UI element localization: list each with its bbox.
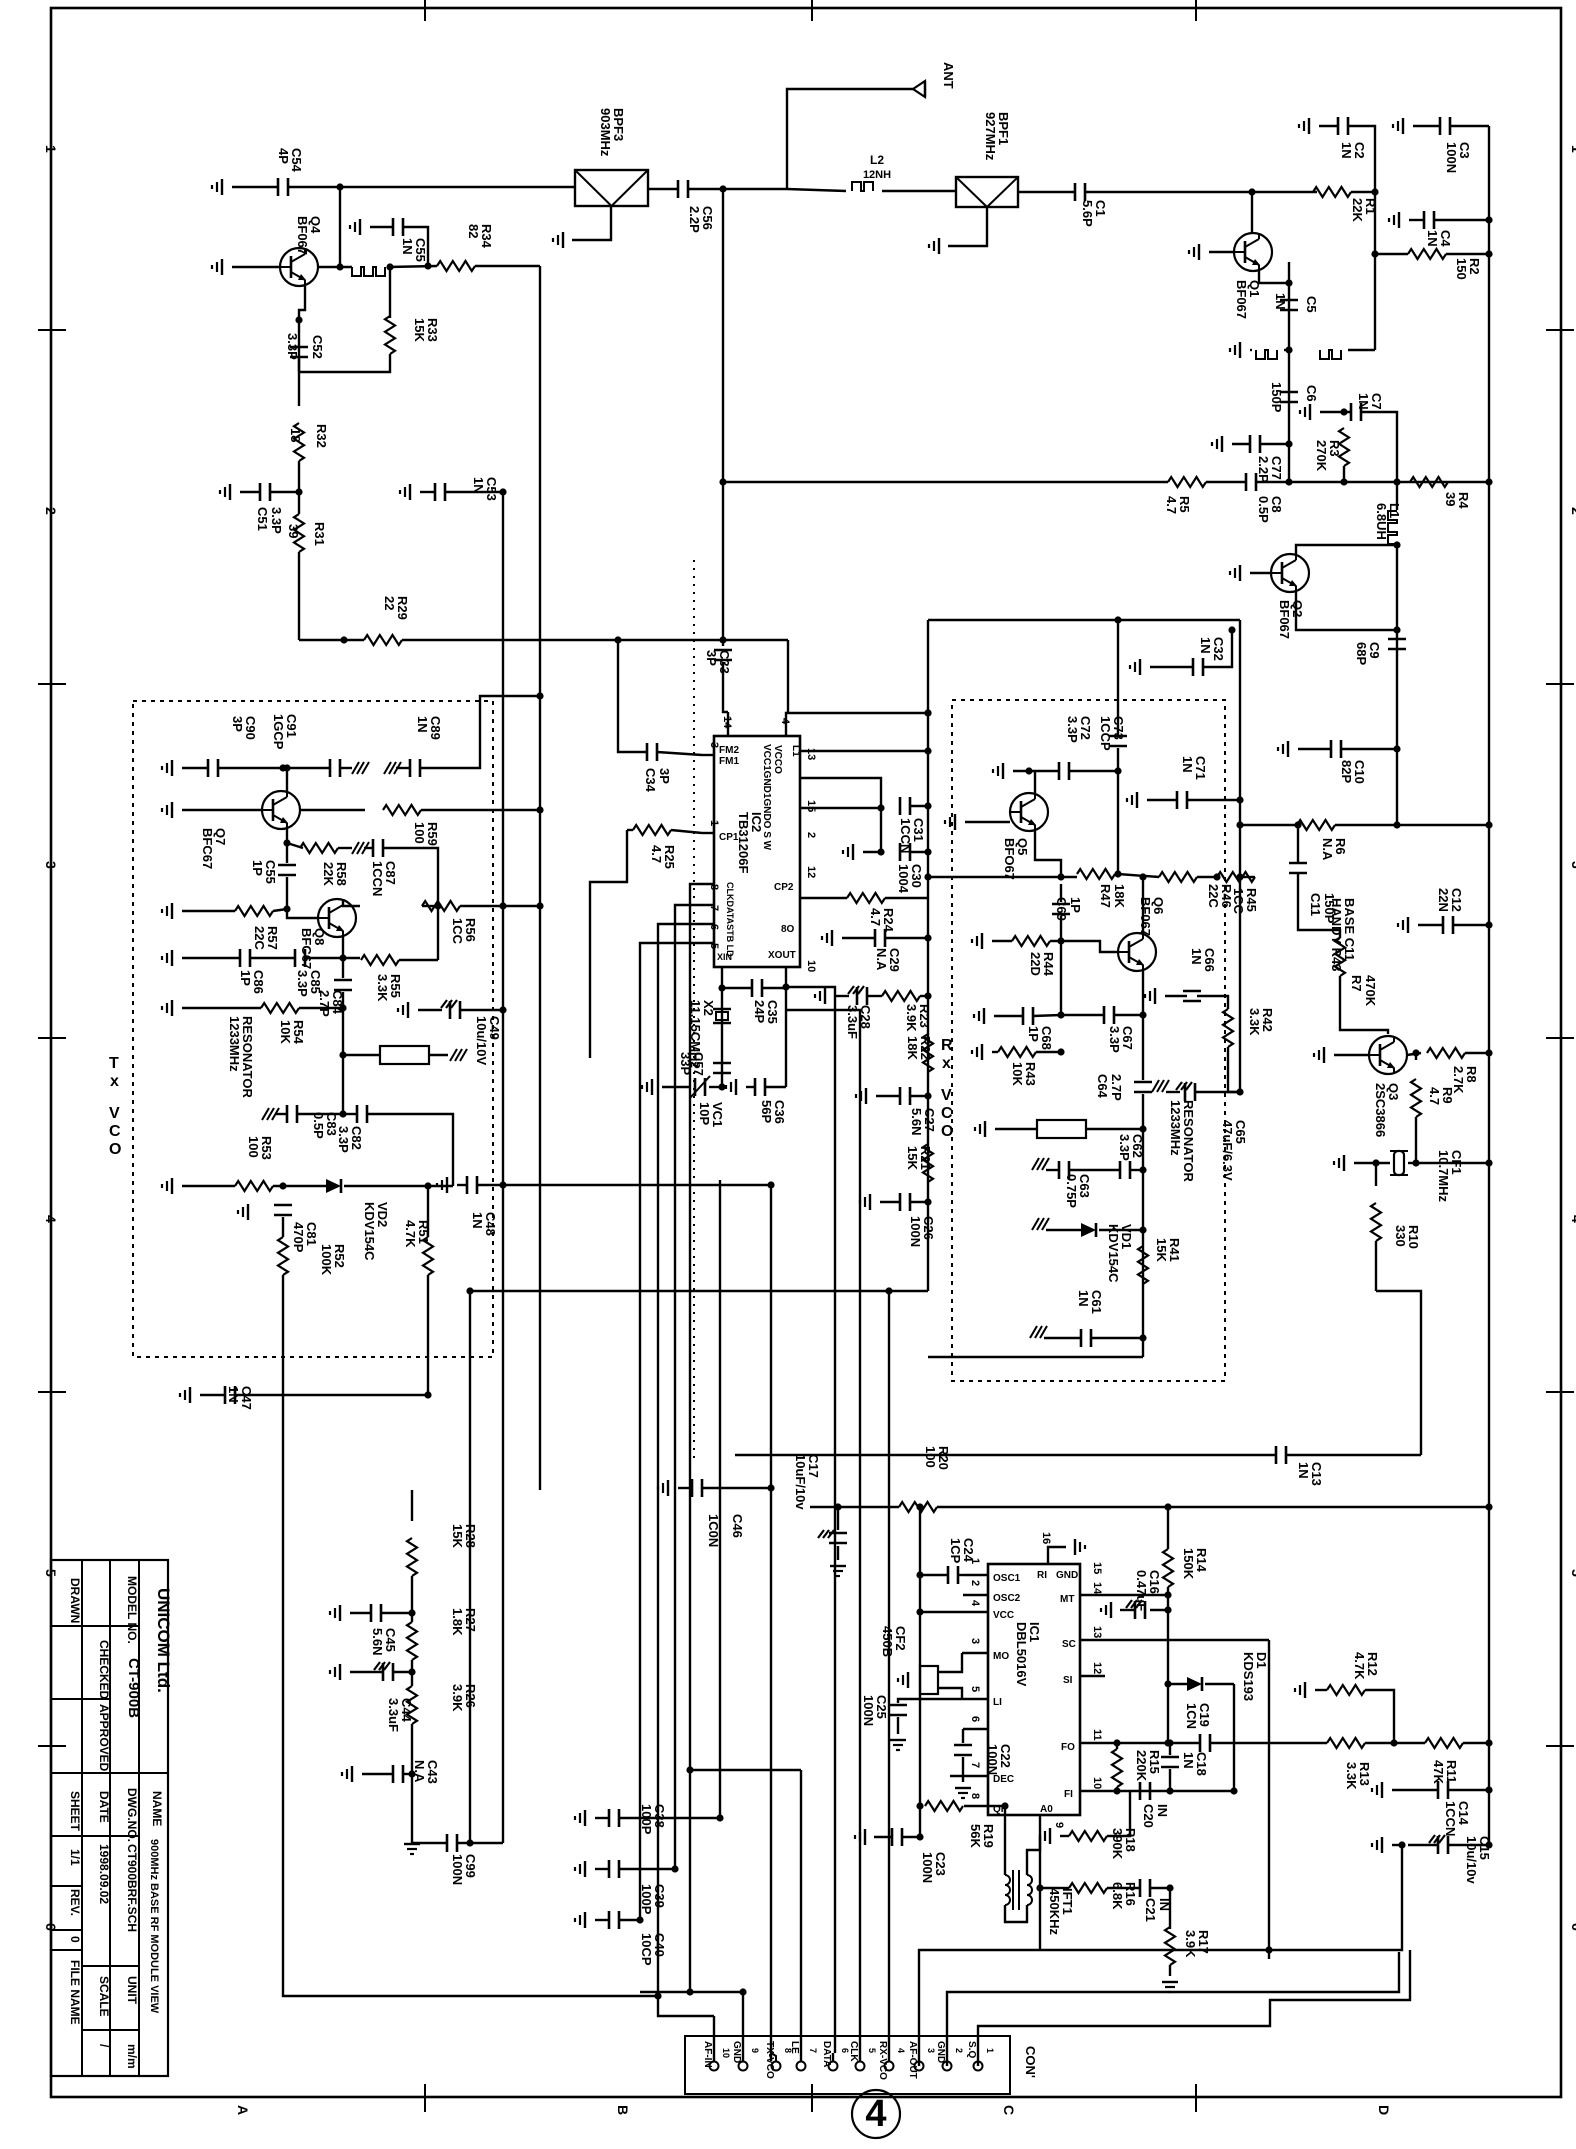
varactor diode VD1 [1081,1223,1096,1237]
inductor L1 [1388,511,1397,544]
wire C32 to emitter node [1203,630,1232,667]
wire [1319,125,1338,127]
junction [1164,1739,1171,1746]
dashed box Tx VCO [133,701,493,1357]
title block column line [81,1560,83,2076]
svg-text:9: 9 [750,2048,760,2053]
wire [1320,411,1351,413]
junction [339,954,346,961]
junction [1025,767,1032,774]
svg-text:24P: 24P [752,1000,767,1023]
svg-text:4P: 4P [276,148,291,164]
capacitor C39 [608,1860,611,1878]
ground [890,1739,906,1741]
capacitor C29 [874,929,877,947]
wire GND drop [640,1992,743,2061]
wire [422,905,438,907]
junction [1485,216,1492,223]
capacitor C53 [434,483,437,501]
svg-text:FM2: FM2 [719,745,739,756]
svg-text:N.A: N.A [412,1760,427,1783]
resistor R10 [1371,1203,1381,1241]
wire [1351,191,1375,193]
junction [339,1004,346,1011]
wire [344,1185,453,1187]
border tick left [38,1037,66,1039]
transformer IFT1 core [1012,1870,1014,1910]
capacitor C65 [1184,1083,1187,1101]
transistor Q5 [1010,793,1048,831]
svg-text:KDS193: KDS193 [1241,1652,1256,1701]
capacitor C36 [754,1078,757,1096]
svg-text:2.7P: 2.7P [317,990,332,1017]
wire [1343,466,1345,482]
wire [1415,1117,1417,1163]
wire vertical bus to C38 [719,1180,721,1818]
svg-text:10K: 10K [278,1020,293,1044]
wire C82 loop to varactor [367,1114,453,1186]
ground [584,1861,586,1877]
capacitor C45 [370,1604,373,1622]
capacitor C7 [1350,403,1353,421]
svg-text:C6: C6 [1304,385,1319,402]
resistor R14 [1163,1549,1173,1587]
resistor R26 [407,1686,417,1724]
wire [1416,1162,1489,1164]
svg-text:33P: 33P [678,1052,693,1075]
capacitor C32 [1192,658,1195,676]
capacitor C87 [372,839,375,857]
wire Q6 collector [1142,877,1144,933]
resistor R7 [1335,938,1345,976]
wire [1166,1091,1180,1093]
svg-text:R31: R31 [312,522,327,546]
svg-text:BF067: BF067 [295,216,310,255]
junction [671,1865,678,1872]
capacitor C83 [286,1105,289,1123]
svg-text:10.7MHz: 10.7MHz [1436,1150,1451,1203]
capacitor C16 [1134,1601,1137,1619]
ground [1407,917,1409,933]
wire [1392,1789,1438,1791]
svg-text:1N: 1N [1339,142,1354,159]
ground [1304,1682,1306,1698]
svg-text:100P: 100P [639,1884,654,1915]
wire [1409,219,1424,221]
svg-text:ANT: ANT [941,62,956,89]
ground [984,1121,986,1137]
wire [350,1671,383,1673]
transistor Q4 [280,248,318,286]
wire [902,1836,920,1838]
wire emitter column [1288,262,1290,482]
capacitor C84 [334,979,352,982]
wire center bus A [502,492,504,1843]
svg-text:BF067: BF067 [1234,280,1249,319]
junction [924,873,931,880]
junction [1485,1786,1492,1793]
svg-text:C51: C51 [255,507,270,531]
wire SC vertical [1268,1640,1270,1959]
svg-text:C21: C21 [1143,1898,1158,1922]
wire [1091,1337,1143,1339]
ground [1381,1782,1383,1798]
svg-text:FM1: FM1 [719,756,739,767]
svg-text:1N: 1N [1076,1290,1091,1307]
wire [874,1836,892,1838]
wire [1315,1689,1327,1691]
svg-text:3.3K: 3.3K [1344,1762,1359,1790]
wire [1408,1844,1438,1846]
wire [627,829,633,831]
svg-text:DEC: DEC [993,1774,1014,1785]
svg-text:T: T [109,1055,119,1072]
resistor R44 [1012,936,1050,946]
resistor R23 [882,991,920,1001]
svg-text:N.A: N.A [874,948,889,971]
wire [232,266,280,268]
wire pin4 VCC [920,1611,988,1613]
wire [1450,125,1489,127]
ground [1308,118,1310,134]
svg-text:1P: 1P [1026,1026,1041,1042]
svg-text:1998.09.02: 1998.09.02 [97,1844,111,1904]
svg-text:RI: RI [1037,1570,1047,1581]
svg-text:SHEET: SHEET [68,1791,82,1832]
junction [1393,541,1400,548]
wire [1099,1229,1143,1231]
bandpass filter BPF3 [575,170,648,206]
junction [924,747,931,754]
ground [584,1810,586,1826]
wire to Q8 base [287,909,318,918]
ground [1381,1837,1383,1853]
junction [1485,1159,1492,1166]
wire pin2 row [800,807,881,809]
wire Q4 emitter [299,286,305,345]
svg-text:CLK: CLK [848,2041,859,2062]
svg-text:6: 6 [969,1716,981,1722]
resistor R6 [1297,820,1335,830]
inductor collector choke [1320,350,1341,359]
svg-text:SCALE: SCALE [97,1976,111,2017]
svg-text:4: 4 [865,2093,886,2135]
resistor R17 [1165,1927,1175,1965]
wire [1147,799,1177,801]
junction [739,1988,746,1995]
wire supply rail column [927,620,929,1291]
border tick left [38,329,66,331]
capacitor C43 [392,1765,395,1783]
svg-text:R7: R7 [1349,975,1364,992]
capacitor C56 [677,180,680,198]
wire DATA bus [786,987,835,2053]
border tick right [1546,329,1574,331]
junction [1057,1011,1064,1018]
ceramic filter CF1 [1394,1151,1404,1175]
wire [898,1699,962,1703]
svg-text:3.3P: 3.3P [1065,716,1080,743]
capacitor C8 [1245,473,1248,491]
resistor R41 [1138,1246,1148,1284]
ground [171,1000,173,1016]
transistor Q6 [1118,933,1156,971]
wire [837,1507,839,1530]
svg-text:CP1: CP1 [719,832,739,843]
ceramic filter CF2 [920,1666,938,1694]
crystal X2 [713,1008,731,1010]
connector pin 10 AF-IN [710,2062,719,2071]
wire [1415,1053,1417,1060]
wire pin3 stub [962,1652,988,1654]
wire [765,1086,786,1088]
wire [298,359,300,406]
wire pin7 stub [950,1775,988,1777]
svg-text:1CCN: 1CCN [370,861,385,896]
wire [182,1185,235,1187]
wire [1365,1690,1394,1743]
svg-text:TX-VCO: TX-VCO [764,2041,775,2079]
trimmer capacitor VC1 [694,1078,697,1096]
svg-text:1N: 1N [1189,948,1204,965]
svg-text:O: O [941,1123,953,1140]
wire [1408,1162,1416,1164]
wire [1165,995,1187,997]
capacitor C38 [608,1809,611,1827]
wire pin8 stub [964,1805,988,1807]
svg-text:MT: MT [1060,1594,1074,1605]
ground [1239,342,1241,358]
junction [1393,478,1400,485]
ground [955,1787,971,1789]
border tick right [1546,1745,1574,1747]
ground [221,179,223,195]
wire V-tune drop [787,640,789,713]
junction [924,1092,931,1099]
svg-text:390K: 390K [1110,1828,1125,1860]
wire Q7 emitter [286,829,288,863]
wire supply row [937,1506,1489,1508]
wire [1375,253,1408,255]
wire [282,1217,284,1237]
svg-text:4: 4 [896,2048,906,2053]
wire [1167,1684,1169,1743]
capacitor C10 [1330,740,1333,758]
svg-text:900MHz BASE RF MODULE VIEW: 900MHz BASE RF MODULE VIEW [148,1839,160,2014]
wire into Rx VCO [1117,620,1119,735]
capacitor C54 [277,178,280,196]
wire IC2 pin3 stub [702,754,714,756]
wire long R5 row [723,481,1168,483]
resistor R43 [998,1047,1036,1057]
svg-text:3.3P: 3.3P [1117,1134,1132,1161]
svg-text:5.6N: 5.6N [909,1108,924,1135]
junction [718,1083,725,1090]
wire IC2 pin14 stub [727,712,729,736]
ground [171,903,173,919]
wire IC2 pin1 stub [702,832,714,834]
capacitor C20 [1139,1782,1142,1800]
junction [1164,1503,1171,1510]
wire TX-VCO pin link [771,2053,776,2061]
wire LE drop [800,1770,802,2061]
wire [383,848,438,960]
wire [910,1095,928,1097]
wire [418,1009,442,1011]
ground [1398,212,1400,228]
svg-text:82: 82 [466,224,481,238]
wire [1197,876,1217,878]
wire pin13 SC row [1080,1639,1269,1641]
junction [877,804,884,811]
border tick bottom [424,2084,426,2112]
wire [662,1086,691,1088]
junction [1139,1334,1146,1341]
wire [1375,1241,1377,1291]
junction [1412,1159,1419,1166]
svg-text:DATA: DATA [821,2041,832,2067]
svg-text:R32: R32 [314,424,329,448]
ground [562,232,564,248]
wire [411,1576,413,1622]
svg-text:15K: 15K [450,1524,465,1548]
wire [182,910,235,912]
wire [671,830,702,833]
wire [657,752,702,755]
wire C7 to L1 [1361,412,1397,510]
svg-text:SC: SC [1062,1639,1076,1650]
wire [880,808,882,852]
wire [1448,1844,1489,1846]
junction [1139,1166,1146,1173]
wire C11 to R7 [1298,874,1340,938]
svg-text:3P: 3P [230,716,245,732]
wire [286,877,288,909]
dashed box Rx VCO [952,700,1225,1381]
capacitor C17 [829,1532,847,1535]
IC IC2 TB31206F [714,736,800,967]
wire [1434,219,1489,221]
wire [342,1055,344,1114]
capacitor C11 [1289,862,1307,865]
wire [688,188,787,190]
wire Rx bottom row [928,1356,1143,1358]
capacitor C4 [1423,211,1426,229]
wire [350,1612,371,1614]
svg-text:15K: 15K [1154,1238,1169,1262]
resistor R57 [235,906,273,916]
ground [1323,1047,1325,1063]
svg-text:8: 8 [969,1793,981,1799]
svg-text:CP2: CP2 [774,882,794,893]
svg-text:0: 0 [68,1936,82,1943]
wire CLK bus [786,1010,860,2061]
wire [421,809,540,811]
svg-text:FILE NAME: FILE NAME [68,1960,82,2025]
wire [885,937,928,939]
svg-text:6.8UH: 6.8UH [1374,503,1389,540]
wire bus 2 [675,905,714,1869]
border tick top [811,0,813,21]
svg-text:6.8K: 6.8K [1110,1882,1125,1910]
wire [1036,1051,1061,1053]
wire center bus C [469,1291,471,1843]
junction [924,802,931,809]
resistor R21 [923,1144,933,1182]
resistor R42 [1223,1009,1233,1047]
transistor Q7 [262,791,300,829]
svg-text:LI: LI [993,1697,1002,1708]
svg-text:OSC1: OSC1 [993,1573,1021,1584]
svg-text:3P: 3P [657,768,672,784]
junction [1390,1739,1397,1746]
wire [1046,1229,1081,1231]
junction [782,983,789,990]
junction [1412,1049,1419,1056]
wire row to RX-VCO bus [470,1290,928,1292]
junction [719,636,726,643]
resistor R31 [294,514,304,552]
ground [831,930,833,946]
svg-text:L2: L2 [870,153,884,167]
svg-text:18: 18 [288,428,303,442]
junction [916,1503,923,1510]
wire RX-VCO drop [888,2053,890,2061]
wire pin15 [800,778,881,806]
ground [352,762,359,774]
junction [1294,821,1301,828]
junction [1485,1841,1492,1848]
resistor R27 [407,1622,417,1660]
svg-text:150K: 150K [1181,1548,1196,1580]
wire XOUT column [785,967,787,1087]
border tick left [38,683,66,685]
wire [273,1185,326,1187]
junction [536,806,543,813]
svg-text:39: 39 [1443,492,1458,506]
junction [1057,937,1064,944]
capacitor C90 [207,759,210,777]
capacitor C27 [899,1087,902,1105]
wire [962,1757,964,1782]
capacitor C66 [1183,990,1201,993]
wire C89 to supply bus [420,696,540,768]
wire Q5 collector [1034,771,1036,793]
wire [1167,1587,1169,1684]
svg-text:C64: C64 [1095,1074,1110,1099]
wire [1013,770,1059,772]
ground [189,1387,191,1403]
svg-text:10u/10V: 10u/10V [474,1016,489,1065]
svg-text:150: 150 [1454,258,1469,280]
svg-text:1GCP: 1GCP [271,714,286,750]
svg-text:4.7K: 4.7K [403,1220,418,1248]
svg-text:4.7: 4.7 [649,845,664,863]
ground [830,1565,846,1567]
capacitor C99 [446,1834,449,1852]
svg-text:1CCN: 1CCN [1443,1801,1458,1836]
border tick right [1546,1037,1574,1039]
wire [340,767,352,769]
svg-text:100P: 100P [639,1804,654,1835]
resistor R34 [437,261,475,271]
svg-text:BFC67: BFC67 [200,828,215,869]
wire IC2 pin4 VCCO [786,713,928,736]
wire [1465,1052,1489,1054]
junction [1485,821,1492,828]
resistor R25 [633,825,671,835]
junction [1236,873,1243,880]
